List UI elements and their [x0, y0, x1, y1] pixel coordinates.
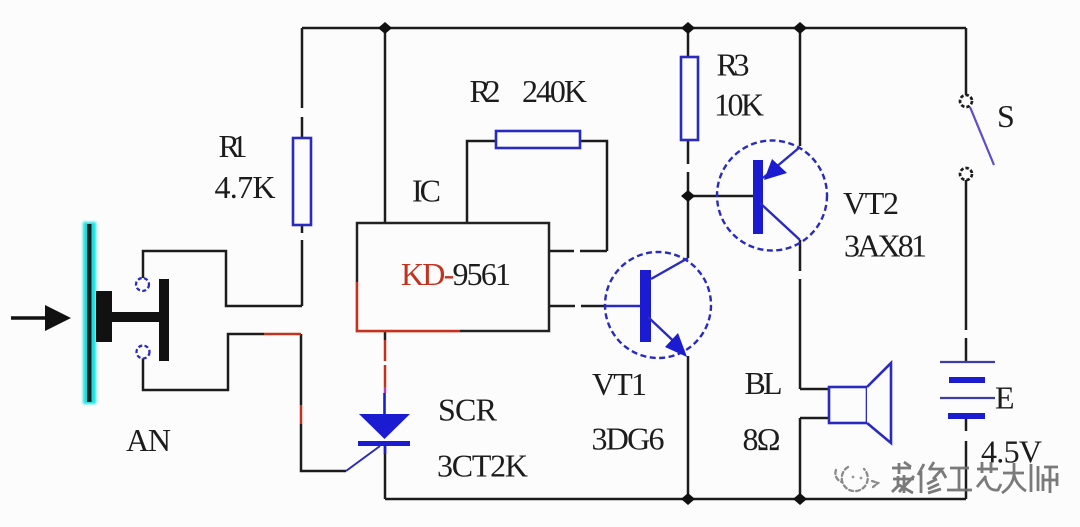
svg-text:240K: 240K: [522, 73, 587, 109]
svg-text:R3: R3: [717, 47, 750, 83]
svg-text:IC: IC: [412, 173, 441, 209]
svg-text:10K: 10K: [714, 87, 764, 123]
svg-text:8Ω: 8Ω: [743, 421, 781, 457]
svg-text:R2: R2: [470, 73, 501, 109]
svg-text:R1: R1: [219, 128, 248, 164]
svg-text:3CT2K: 3CT2K: [437, 448, 528, 484]
svg-text:4.7K: 4.7K: [215, 169, 276, 205]
svg-text:E: E: [995, 380, 1015, 416]
svg-text:KD-9561: KD-9561: [401, 256, 511, 292]
svg-text:3DG6: 3DG6: [592, 421, 665, 457]
svg-text:VT2: VT2: [843, 185, 899, 221]
svg-text:3AX81: 3AX81: [844, 228, 927, 264]
svg-text:BL: BL: [745, 365, 783, 401]
svg-text:AN: AN: [126, 422, 171, 458]
svg-text:S: S: [997, 98, 1015, 134]
svg-text:VT1: VT1: [592, 366, 647, 402]
svg-text:SCR: SCR: [438, 392, 498, 428]
